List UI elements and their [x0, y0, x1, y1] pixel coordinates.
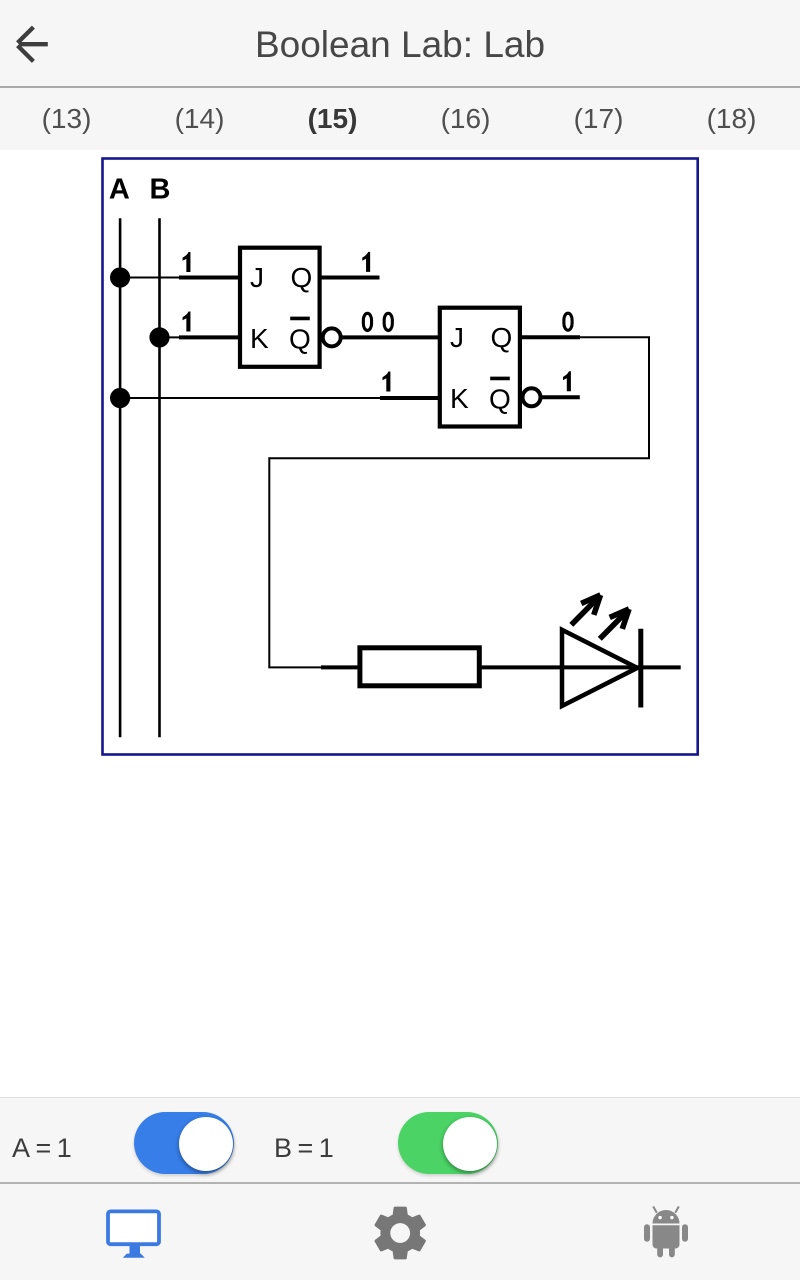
value 0 at J2 input: [384, 313, 392, 330]
value 1 at J1 input: [183, 252, 191, 272]
toggle row background: [0, 1097, 800, 1183]
svg-text:B: B: [150, 174, 171, 206]
label B = 1: [274, 1133, 333, 1164]
svg-text:J: J: [250, 262, 264, 293]
wire B to K1 (thin): [160, 336, 182, 338]
title: Boolean Lab: Lab: [0, 24, 800, 66]
switch A track (on, blue): [134, 1112, 234, 1174]
svg-text:Q: Q: [291, 262, 313, 293]
junction dot on B (K1 row): [149, 327, 169, 347]
K1 input stub (thick): [179, 335, 241, 339]
svg-text:A: A: [109, 174, 130, 206]
svg-text:Q: Q: [489, 384, 511, 415]
resistor R1 body: [360, 648, 479, 686]
LED D1 triangle: [562, 630, 637, 706]
tab (18): [665, 103, 798, 135]
value 0 at Q1bar output: [363, 313, 371, 330]
feedback wire Q2 to resistor (thin): [269, 337, 649, 667]
wire A to K2 (thin): [120, 397, 381, 399]
LED light arrow 2 shaft: [600, 612, 627, 639]
wire A to J1 (thin): [120, 277, 180, 279]
bottom nav background: [0, 1184, 800, 1280]
Q1bar wire to J2 (thick): [342, 335, 441, 339]
tab (17): [532, 103, 665, 135]
resistor right lead + LED wire (thick): [480, 665, 681, 669]
back arrow icon: [0, 0, 70, 86]
input rail A (vertical wire): [119, 218, 122, 737]
input rail B (vertical wire): [158, 218, 161, 737]
switch A knob: [179, 1117, 233, 1171]
junction dot on A (K2 row): [110, 388, 130, 408]
K2 input stub (thick): [380, 396, 441, 400]
top app bar: [0, 0, 800, 86]
value 1 at Q2bar output: [563, 371, 571, 391]
U1 inverter bubble (Qbar): [323, 328, 341, 346]
value 1 at K1 input: [183, 312, 191, 332]
tab (16): [399, 103, 532, 135]
J1 input stub (thick): [179, 276, 241, 280]
nav icons svg: [0, 1184, 800, 1280]
LED cathode bar: [638, 629, 643, 708]
nav icon: android robot: [644, 1207, 688, 1258]
LED light arrow 1 shaft: [571, 598, 598, 625]
tab (15) selected: [266, 103, 399, 135]
svg-text:Q: Q: [491, 322, 513, 353]
svg-text:K: K: [250, 323, 269, 354]
LED light arrow 1 head: [581, 595, 600, 615]
flip-flop U2 box: [440, 308, 520, 427]
U1 Qbar overline: [290, 317, 310, 321]
tab bar background: [0, 88, 800, 151]
divider under top bar: [0, 86, 800, 88]
value 1 at Q1 output: [362, 252, 370, 272]
value 0 at Q2 output: [564, 313, 572, 330]
LED light arrow 2 head: [610, 609, 629, 629]
Q1 output stub (thick): [319, 276, 380, 280]
tab (14): [133, 103, 266, 135]
svg-text:J: J: [450, 322, 464, 353]
flip-flop U1 box: [240, 248, 320, 367]
Q2 output stub (thick): [519, 335, 580, 339]
Q2bar output stub (thick): [542, 395, 580, 399]
bottom nav divider: [0, 1182, 800, 1184]
canvas frame (blue border): [103, 159, 698, 755]
U2 inverter bubble (Qbar): [523, 388, 541, 406]
tab (13): [0, 103, 133, 135]
U2 Qbar overline: [490, 377, 510, 381]
resistor left lead (thick): [321, 665, 359, 669]
svg-text:K: K: [450, 383, 469, 414]
junction dot on A (J1 row): [110, 267, 130, 287]
switch B track (on, green): [398, 1112, 498, 1174]
switch B knob: [443, 1117, 497, 1171]
nav icon: monitor (selected, blue): [108, 1211, 159, 1257]
label A = 1: [12, 1133, 71, 1164]
value 1 at K2 input: [383, 372, 391, 392]
svg-text:Q: Q: [289, 324, 311, 355]
nav icon: settings gear: [375, 1207, 426, 1260]
